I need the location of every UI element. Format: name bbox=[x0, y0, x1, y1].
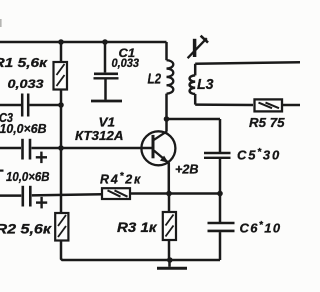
ground bbox=[157, 260, 187, 268]
capacitor C1 bbox=[94, 42, 119, 100]
node junction C2/left rail bbox=[58, 102, 64, 108]
svg-text:R5 75: R5 75 bbox=[249, 115, 285, 130]
inductor L2 bbox=[167, 42, 174, 119]
capacitor C5 bbox=[204, 153, 231, 194]
node junction R1/top rail bbox=[58, 39, 64, 45]
resistor R1 bbox=[54, 42, 68, 105]
transistor V1 KT312A bbox=[141, 119, 175, 194]
svg-text:0,033: 0,033 bbox=[112, 58, 140, 70]
svg-text:L3: L3 bbox=[197, 77, 214, 93]
stray smudge top left bbox=[0, 19, 2, 27]
trimmer adjustment symbol for L3 bbox=[188, 36, 208, 59]
resistor R5 bbox=[255, 99, 283, 111]
wire L3 top to right edge bbox=[195, 62, 300, 64]
wire below R2 to bottom rail bbox=[61, 241, 220, 261]
resistor R4 bbox=[102, 188, 130, 199]
svg-text:0,033: 0,033 bbox=[8, 79, 45, 91]
inductor L3 bbox=[190, 64, 196, 105]
svg-text:C6*10: C6*10 bbox=[240, 220, 282, 236]
svg-text:10,0×6В: 10,0×6В bbox=[6, 170, 50, 184]
svg-text:КТ312А: КТ312А bbox=[75, 128, 124, 143]
capacitor C6 bbox=[208, 223, 235, 260]
svg-text:10,0×6В: 10,0×6В bbox=[0, 122, 47, 136]
node junction ground/bottom rail bbox=[167, 257, 173, 263]
svg-text:C5*30: C5*30 bbox=[237, 147, 281, 163]
svg-text:L2: L2 bbox=[148, 72, 162, 88]
wire top supply rail bbox=[0, 41, 167, 44]
wire base lead bbox=[61, 147, 152, 150]
wire L3 bottom to R5 bbox=[195, 103, 253, 106]
node junction collector/L2/coupling bbox=[164, 116, 170, 122]
wire right rail middle bbox=[219, 194, 222, 223]
svg-text:R4*2к: R4*2к bbox=[100, 171, 142, 187]
node junction C1/top rail bbox=[102, 39, 108, 45]
node junction C3/base wire/left rail bbox=[58, 145, 64, 151]
wire collector junction to right rail bbox=[167, 118, 221, 121]
capacitor C2 bbox=[0, 94, 61, 117]
wire R4 to emitter junction to right rail bbox=[130, 192, 220, 195]
resistor R3 bbox=[163, 194, 176, 261]
resistor R2 bbox=[55, 213, 68, 241]
svg-text:R1 5,6к: R1 5,6к bbox=[0, 56, 48, 70]
svg-text:R3 1к: R3 1к bbox=[117, 220, 158, 235]
ground chassis bar under C1 bbox=[91, 100, 122, 103]
wire R5 to right edge bbox=[282, 104, 300, 107]
node junction emitter/R4/R3 bbox=[166, 191, 172, 197]
capacitor C4 electrolytic bbox=[0, 186, 102, 209]
stray mark left edge bbox=[0, 170, 4, 172]
node junction emitter wire/right rail bbox=[217, 191, 223, 197]
svg-text:+2В: +2В bbox=[175, 162, 199, 176]
capacitor C3 electrolytic bbox=[0, 139, 61, 163]
wire right rail bbox=[219, 119, 222, 152]
wire left rail bbox=[60, 105, 63, 213]
svg-text:R2 5,6к: R2 5,6к bbox=[0, 221, 52, 236]
